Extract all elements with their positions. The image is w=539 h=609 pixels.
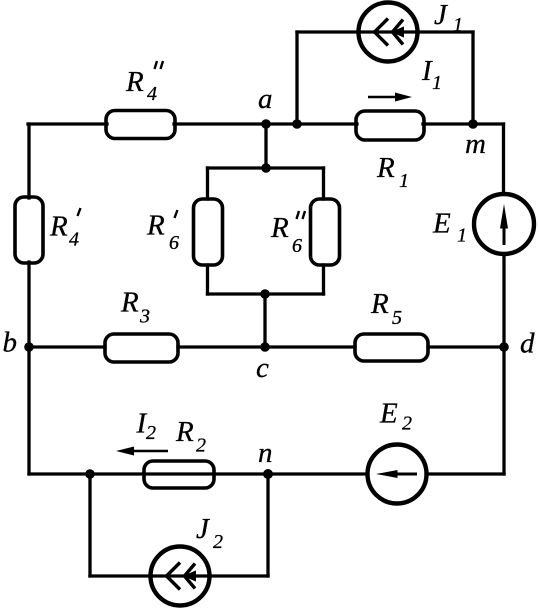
svg-text:R: R: [146, 210, 165, 242]
resistor R3: [105, 334, 178, 362]
resistor R4': [15, 197, 43, 263]
label R4': [49, 208, 81, 251]
node a junction dot: [261, 119, 271, 129]
label R6'': [270, 211, 305, 257]
node n junction dot: [263, 469, 273, 479]
wire left branch above R6': [206, 168, 209, 199]
svg-text:R: R: [175, 416, 194, 448]
wire bottom row left (left rail to E2): [29, 472, 367, 475]
junction dot J2 left tap: [85, 469, 95, 479]
wire left rail upper (corner to R4' top): [27, 124, 30, 198]
svg-text:R: R: [376, 152, 395, 184]
svg-text:1: 1: [399, 170, 409, 192]
svg-text:m: m: [465, 128, 486, 160]
wire right branch above R6'': [322, 168, 325, 199]
wire parallel network bottom bar: [208, 292, 324, 295]
wire J1 right vertical down to node m: [471, 32, 474, 124]
svg-text:2: 2: [146, 422, 156, 444]
wire middle row R3 to R5: [178, 345, 355, 348]
svg-text:2: 2: [213, 531, 223, 553]
svg-text:c: c: [256, 352, 269, 384]
svg-text:4: 4: [69, 229, 79, 251]
wire left rail lower (R4' bottom to bottom wire): [27, 262, 30, 474]
label I2: [136, 408, 157, 445]
svg-text:3: 3: [139, 306, 150, 328]
junction dot parallel bottom: [260, 289, 270, 299]
current source J1: [359, 3, 418, 62]
svg-text:1: 1: [453, 14, 463, 36]
node m junction dot: [468, 119, 478, 129]
svg-text:J: J: [434, 0, 448, 31]
label J1: [434, 0, 463, 36]
wire J1 top horizontal (passes through J1 circle): [297, 30, 473, 33]
current source J2: [151, 547, 210, 606]
svg-text:4: 4: [147, 83, 157, 105]
wire left branch below R6': [206, 265, 209, 294]
svg-text:1: 1: [457, 225, 467, 247]
wire R1 to top-right corner: [423, 122, 504, 125]
resistor R1: [356, 111, 424, 140]
svg-text:R: R: [120, 287, 139, 319]
wire J2 left vertical: [88, 474, 91, 576]
wire middle row b to R3: [29, 345, 105, 348]
svg-text:R: R: [49, 211, 68, 243]
resistor R6'': [311, 199, 340, 265]
resistor R4'': [106, 111, 175, 139]
junction dot J1 left tap: [292, 119, 302, 129]
node b junction dot: [24, 342, 34, 352]
wire J1 left vertical: [295, 32, 298, 124]
wire R4'' to node a to R1: [174, 122, 357, 125]
svg-text:2: 2: [402, 413, 412, 435]
wire parallel network top bar: [208, 166, 324, 169]
wire center down to node c: [263, 294, 266, 347]
label R5: [370, 288, 402, 329]
svg-text:E: E: [379, 398, 398, 430]
svg-text:2: 2: [196, 435, 206, 457]
label E1: [432, 208, 467, 247]
label R3: [120, 287, 150, 328]
resistor R5: [355, 334, 428, 361]
wire bottom row right (E2 to right rail): [427, 472, 504, 475]
svg-text:R: R: [270, 212, 289, 244]
label R4'': [125, 61, 163, 105]
arrow I2: [116, 447, 168, 456]
voltage source E2: [368, 445, 427, 504]
label R6': [146, 210, 179, 255]
svg-text:E: E: [432, 208, 451, 240]
arrow I1: [368, 93, 412, 102]
svg-text:a: a: [258, 83, 273, 115]
svg-text:R: R: [370, 288, 389, 320]
label R1: [376, 152, 409, 192]
svg-text:b: b: [3, 327, 18, 359]
resistor R6': [194, 199, 223, 265]
label J2: [196, 513, 223, 553]
wire node a down to parallel top bar: [264, 124, 267, 168]
svg-text:1: 1: [432, 72, 442, 94]
node c junction dot: [260, 342, 270, 352]
label R2: [175, 416, 206, 457]
label E2: [379, 398, 412, 435]
resistor R2: [144, 461, 214, 488]
svg-text:6: 6: [169, 232, 179, 254]
svg-text:J: J: [196, 513, 210, 545]
voltage source E1: [474, 194, 534, 254]
wire right branch below R6'': [322, 265, 325, 294]
junction dot parallel top: [261, 163, 271, 173]
svg-text:d: d: [520, 328, 535, 360]
node d junction dot: [499, 342, 509, 352]
svg-text:R: R: [125, 66, 144, 98]
svg-text:5: 5: [392, 307, 402, 329]
wire J2 bottom horizontal (passes through J2 circle): [90, 574, 268, 577]
wire middle row R5 to d: [428, 345, 504, 348]
svg-text:n: n: [258, 437, 273, 469]
svg-text:6: 6: [292, 235, 302, 257]
wire right rail (E1 bottom to node d to bottom corner): [502, 254, 505, 474]
wire J2 right vertical to node n: [266, 474, 269, 576]
label I1: [421, 55, 442, 94]
wire right rail top (corner to E1 top): [502, 124, 505, 194]
wire top-left horizontal (left rail to R4''): [28, 122, 107, 125]
